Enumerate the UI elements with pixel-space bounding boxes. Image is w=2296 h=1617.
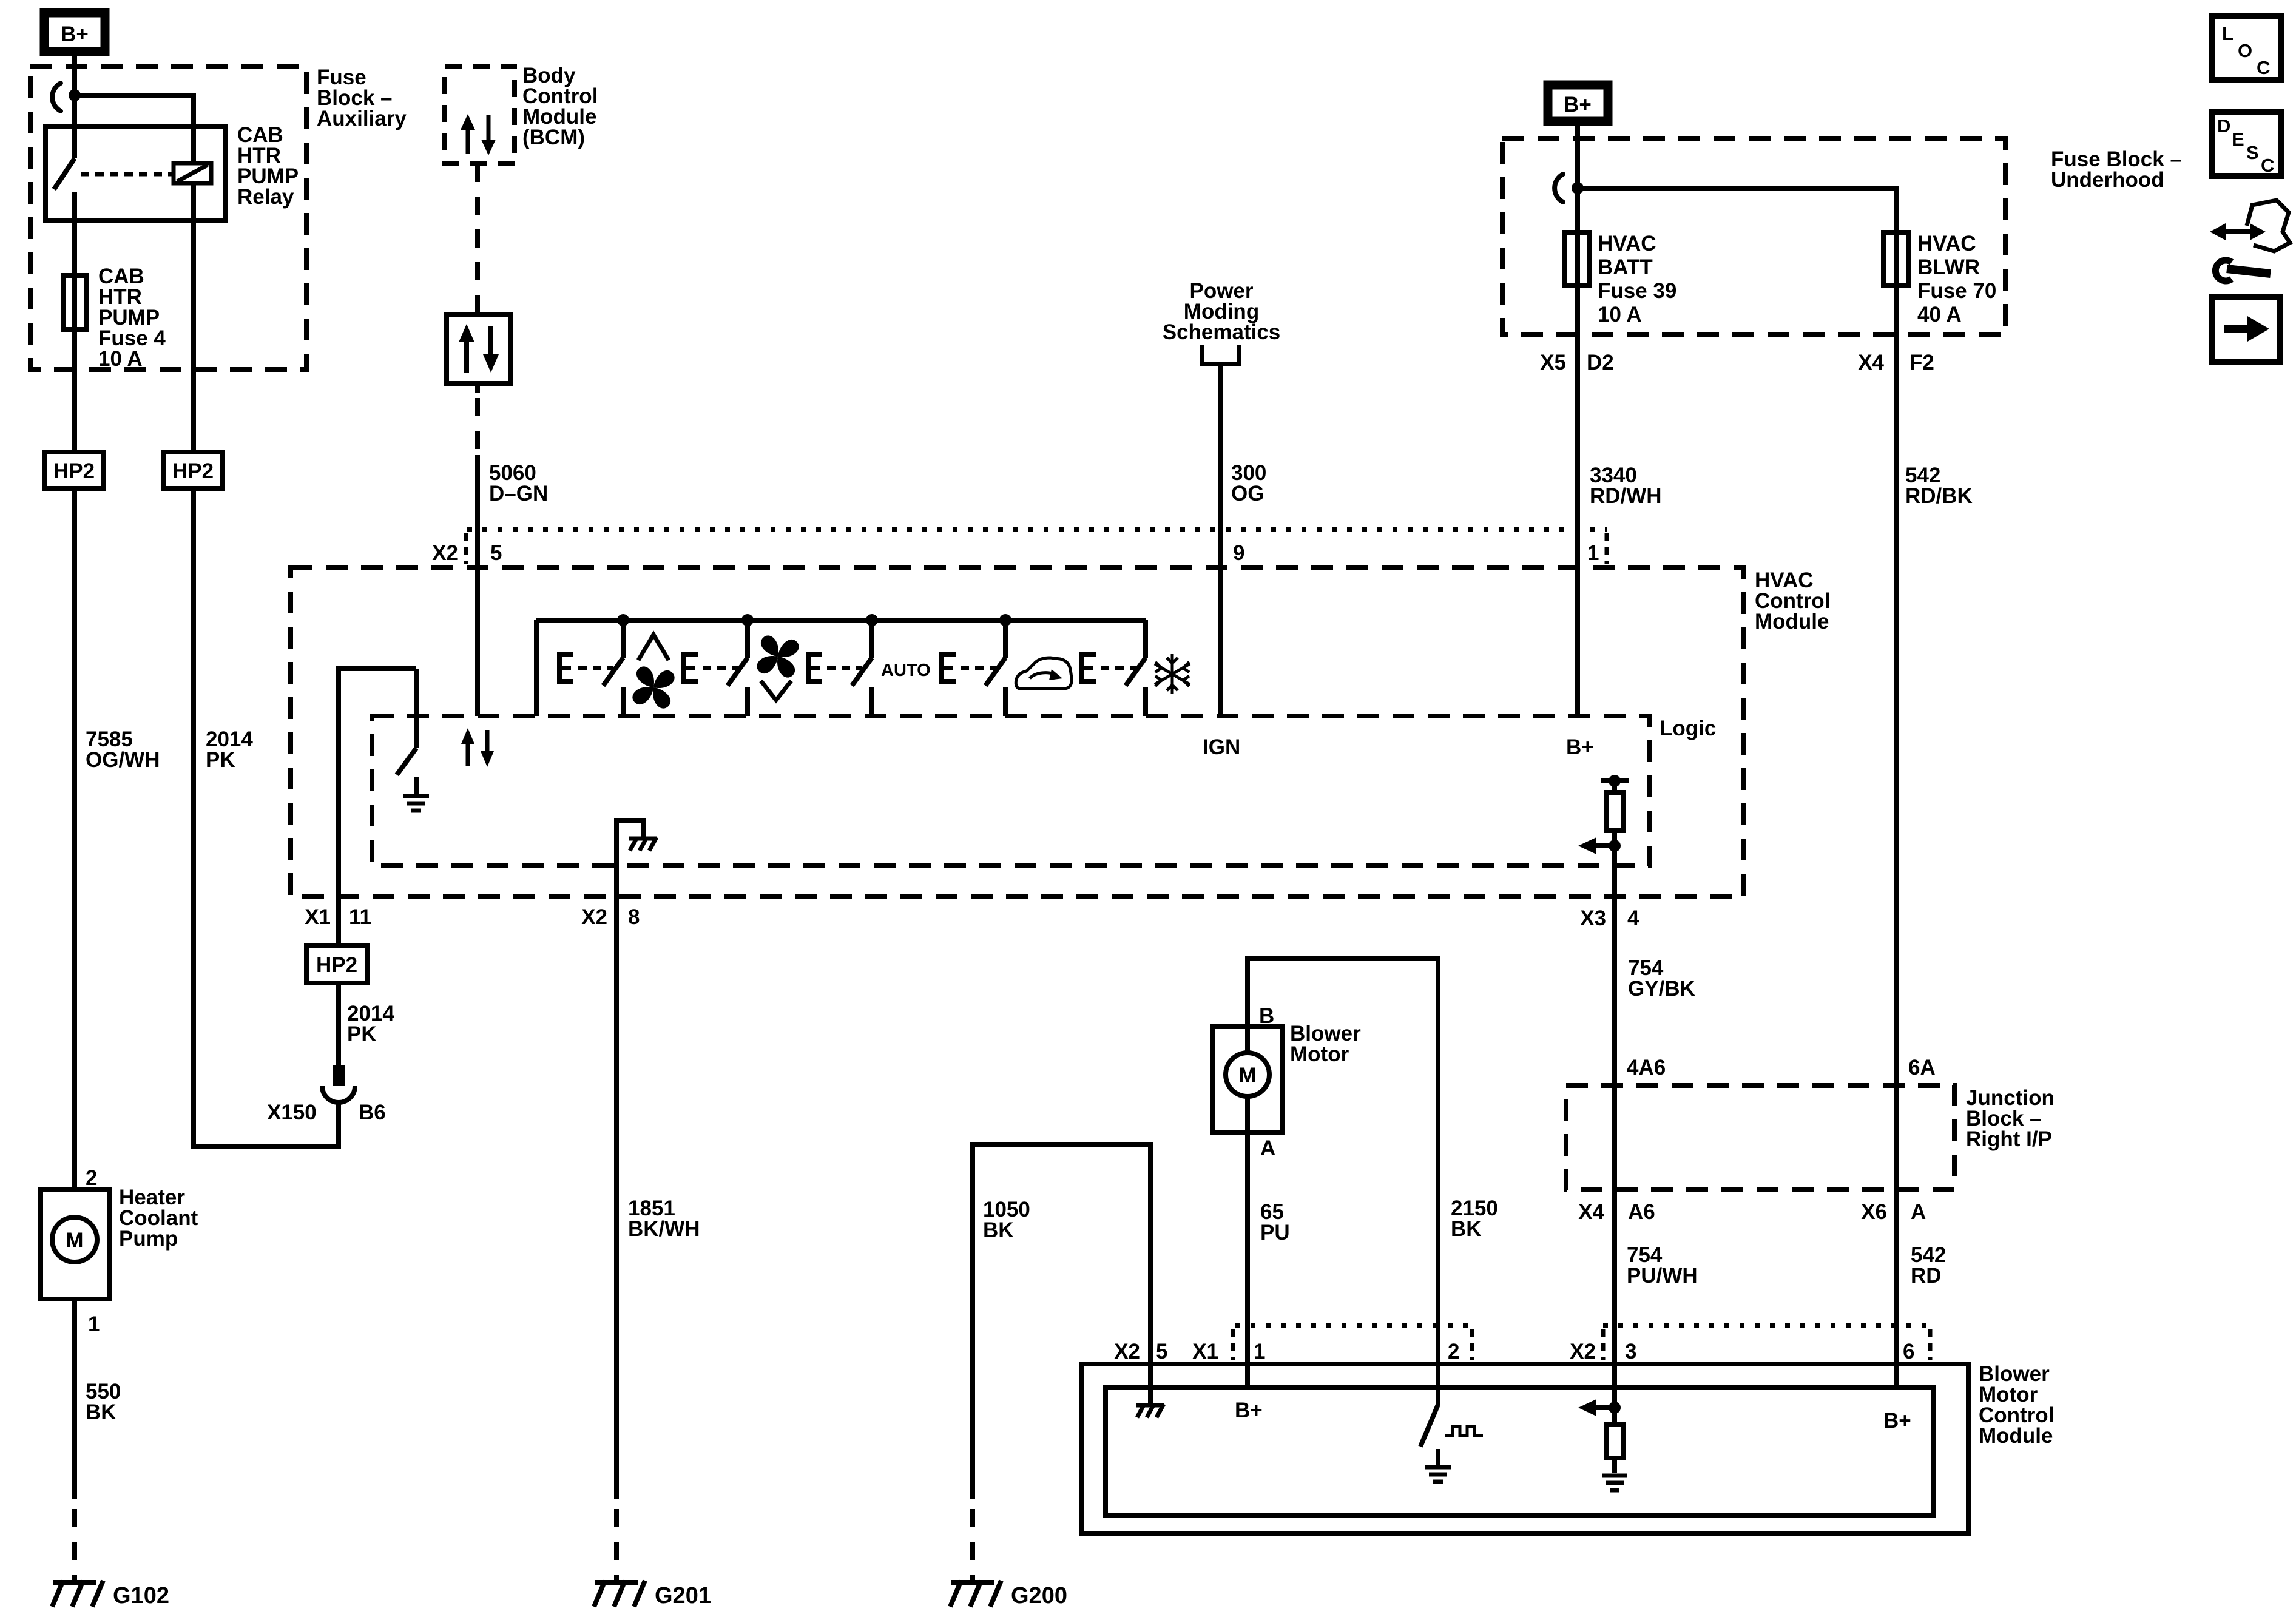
icon A/C snowflake bbox=[1155, 654, 1190, 694]
serial data interface box bbox=[447, 315, 511, 383]
internal ground jog at X2-8 bbox=[616, 820, 643, 837]
wire pin 5 to internal chassis ground bbox=[1148, 1325, 1153, 1404]
svg-text:X2: X2 bbox=[1570, 1340, 1596, 1363]
svg-text:PK: PK bbox=[347, 1022, 377, 1046]
svg-text:OG/WH: OG/WH bbox=[86, 748, 160, 772]
connector HP2 (circuit 2014, fuse block side) bbox=[164, 452, 223, 488]
icon recirculation car bbox=[1016, 658, 1072, 689]
ground G200 chassis ground symbol bbox=[950, 1581, 1001, 1607]
motor M2 Blower Motor bbox=[1213, 1027, 1283, 1133]
svg-text:F2: F2 bbox=[1909, 351, 1934, 374]
wire 1851 BK/WH from X2-8 to G201 bbox=[614, 818, 619, 1499]
svg-text:Underhood: Underhood bbox=[2051, 168, 2164, 192]
svg-text:C: C bbox=[2261, 155, 2274, 176]
wire pin 2 to PWM switch bbox=[1436, 1325, 1440, 1405]
svg-text:B+: B+ bbox=[1883, 1409, 1911, 1433]
pin label X5 D2 bbox=[1540, 351, 1614, 374]
svg-text:HP2: HP2 bbox=[316, 953, 357, 977]
value label 1851 BK/WH bbox=[628, 1197, 700, 1241]
value label 550 BK bbox=[86, 1380, 121, 1424]
relay switch lever bbox=[54, 158, 75, 189]
connector row ticks bbox=[1233, 1329, 1930, 1360]
svg-text:B+: B+ bbox=[61, 22, 89, 46]
svg-text:6A: 6A bbox=[1908, 1056, 1936, 1079]
fuse block feed curl symbol bbox=[52, 83, 61, 111]
dashed wire below interface box bbox=[475, 383, 480, 452]
svg-text:D–GN: D–GN bbox=[489, 482, 548, 505]
svg-text:4A6: 4A6 bbox=[1627, 1056, 1666, 1079]
svg-text:6: 6 bbox=[1903, 1340, 1914, 1363]
svg-text:BLWR: BLWR bbox=[1917, 255, 1980, 279]
svg-text:B+: B+ bbox=[1235, 1399, 1263, 1422]
svg-text:RD: RD bbox=[1911, 1264, 1942, 1288]
connector row end tick bbox=[1605, 533, 1609, 564]
switch bus left leg bbox=[534, 620, 539, 716]
value label 754 PU/WH bbox=[1627, 1243, 1698, 1288]
power symbol B+ (underhood battery feed) bbox=[1548, 85, 1608, 121]
wire 542 RD/BK from fuse 70 down to junction block bbox=[1894, 188, 1899, 1388]
svg-text:X3: X3 bbox=[1580, 906, 1606, 930]
wire through logic resistor to X3-4 bbox=[1612, 781, 1617, 1425]
label Body Control Module (BCM) bbox=[522, 64, 598, 149]
svg-text:B+: B+ bbox=[1564, 93, 1592, 116]
svg-text:40 A: 40 A bbox=[1917, 303, 1962, 326]
svg-text:AUTO: AUTO bbox=[881, 661, 931, 680]
svg-text:BK: BK bbox=[86, 1400, 116, 1424]
switch S3 AUTO (E-controlled) bbox=[806, 614, 878, 716]
svg-text:X2: X2 bbox=[581, 905, 607, 929]
svg-text:Relay: Relay bbox=[237, 185, 294, 209]
value label 2014 PK (module side) bbox=[347, 1002, 394, 1046]
wire feed to relay coil bbox=[75, 95, 194, 163]
pin label X4 F2 bbox=[1858, 351, 1934, 374]
module BCM Body Control Module dashed box bbox=[445, 66, 515, 164]
svg-text:D2: D2 bbox=[1587, 351, 1614, 374]
wire resistor to ground bbox=[1612, 1458, 1617, 1473]
wire 5060 D-GN to HVAC module bbox=[475, 455, 480, 716]
wire relay switch to fuse 4 bbox=[72, 192, 77, 488]
BCM serial data up arrow bbox=[461, 114, 475, 154]
ground G102 chassis ground symbol bbox=[52, 1581, 103, 1607]
svg-text:G201: G201 bbox=[655, 1583, 711, 1609]
fuse HVAC BATT Fuse 39 10 A bbox=[1564, 232, 1590, 285]
pin label X1 1 bbox=[1192, 1340, 1265, 1363]
pin label X3 4 bbox=[1580, 906, 1639, 930]
earth ground symbol (pin 2) bbox=[1425, 1467, 1451, 1482]
PWM signal symbol bbox=[1445, 1426, 1483, 1436]
label Power Moding Schematics bbox=[1163, 279, 1281, 344]
internal switch lever bbox=[397, 748, 416, 775]
svg-text:Pump: Pump bbox=[119, 1227, 178, 1251]
svg-text:X5: X5 bbox=[1540, 351, 1566, 374]
svg-text:10 A: 10 A bbox=[98, 347, 143, 371]
icon LOC navigation box bbox=[2212, 16, 2281, 80]
svg-text:A6: A6 bbox=[1628, 1200, 1655, 1224]
wire 550 BK bbox=[72, 1299, 77, 1499]
value label 542 RD bbox=[1911, 1243, 1946, 1288]
svg-text:B+: B+ bbox=[1566, 735, 1594, 759]
wire 65 PU to module pin 1 bbox=[1245, 1133, 1250, 1388]
relay K CAB HTR PUMP Relay box bbox=[46, 127, 226, 221]
svg-text:9: 9 bbox=[1233, 541, 1244, 565]
value label 542 RD/BK bbox=[1905, 464, 1973, 508]
svg-text:Motor: Motor bbox=[1290, 1042, 1349, 1066]
PWM switch lever bbox=[1420, 1405, 1438, 1447]
wire relay coil to HP2 (circuit 2014) bbox=[191, 183, 196, 452]
chassis ground symbol in module (pin 5) bbox=[1136, 1404, 1164, 1417]
svg-text:X1: X1 bbox=[305, 905, 331, 929]
svg-text:BATT: BATT bbox=[1598, 255, 1653, 279]
svg-text:Auxiliary: Auxiliary bbox=[317, 107, 407, 130]
svg-text:L: L bbox=[2222, 23, 2234, 44]
wire 2014 PK from X150 up to HVAC module X1-11 bbox=[336, 897, 341, 1067]
dashed wire segment to ground G201 bbox=[614, 1509, 619, 1585]
label Blower Motor Control Module bbox=[1979, 1362, 2054, 1448]
underhood feed curl symbol bbox=[1555, 174, 1563, 202]
svg-text:BK: BK bbox=[1451, 1217, 1482, 1241]
label Junction Block - Right I/P bbox=[1966, 1086, 2055, 1151]
value label 5060 D-GN bbox=[489, 461, 548, 505]
svg-text:1: 1 bbox=[1254, 1340, 1265, 1363]
label Blower Motor bbox=[1290, 1022, 1361, 1066]
svg-text:2: 2 bbox=[86, 1166, 97, 1190]
svg-text:PU: PU bbox=[1260, 1221, 1290, 1244]
value label 7585 OG/WH bbox=[86, 727, 160, 772]
fuse CAB HTR PUMP Fuse 4 10 A bbox=[63, 275, 87, 329]
svg-text:5: 5 bbox=[1156, 1340, 1167, 1363]
wire B+ down through HVAC BATT fuse to HVAC module bbox=[1575, 121, 1580, 716]
pin label X2 3 bbox=[1570, 1340, 1636, 1363]
Fuse Block - Underhood dashed box bbox=[1502, 138, 2005, 334]
svg-text:IGN: IGN bbox=[1203, 735, 1240, 759]
svg-text:8: 8 bbox=[628, 905, 640, 929]
svg-text:X1: X1 bbox=[1192, 1340, 1218, 1363]
value label 2150 BK bbox=[1451, 1197, 1498, 1241]
svg-text:1: 1 bbox=[1587, 541, 1599, 565]
svg-text:D: D bbox=[2217, 115, 2230, 137]
connector row X2 of HVAC control module (dotted) bbox=[467, 527, 1607, 532]
motor M1 Heater Coolant Pump bbox=[41, 1190, 109, 1299]
wire 65 PU / 2150 BK loop around blower motor bbox=[1248, 959, 1438, 1325]
dashed serial data wire from BCM bbox=[475, 164, 480, 315]
svg-text:(BCM): (BCM) bbox=[522, 126, 585, 149]
icon fan speed up (chevron and fan) bbox=[621, 635, 686, 720]
pin label X6 A bbox=[1861, 1200, 1926, 1224]
svg-text:X2: X2 bbox=[1114, 1340, 1140, 1363]
svg-text:PK: PK bbox=[206, 748, 235, 772]
svg-text:X4: X4 bbox=[1858, 351, 1884, 374]
connector row X1/X2 of blower motor control module (dotted) bbox=[1235, 1323, 1930, 1328]
module Blower Motor Control Module outer box bbox=[1081, 1364, 1968, 1533]
resistor ladder tap in logic (blower control output) bbox=[1601, 775, 1629, 787]
pin label X2 8 bbox=[581, 905, 640, 929]
junction block Right I/P dashed box bbox=[1566, 1085, 1954, 1190]
label CAB HTR PUMP Relay bbox=[237, 123, 299, 209]
svg-text:Schematics: Schematics bbox=[1163, 320, 1281, 344]
serial data arrows at 5060 input bbox=[461, 728, 494, 767]
icon DESC navigation box bbox=[2212, 112, 2281, 176]
wire 2014 PK down and over to X150 bbox=[194, 488, 339, 1147]
wire B+ to relay switch contact bbox=[72, 52, 77, 158]
PWM switch contact stub bbox=[1436, 1449, 1440, 1465]
wire internal to X1-11 output bbox=[339, 669, 416, 897]
svg-text:Fuse 70: Fuse 70 bbox=[1917, 279, 1996, 303]
switch S5 A/C snowflake (E-controlled) bbox=[1079, 620, 1146, 716]
internal switch contact stub bbox=[414, 777, 419, 794]
svg-text:A: A bbox=[1260, 1136, 1275, 1160]
svg-text:X4: X4 bbox=[1578, 1200, 1604, 1224]
svg-text:C: C bbox=[2257, 57, 2270, 78]
svg-text:A: A bbox=[1911, 1200, 1926, 1224]
logic block dashed box bbox=[372, 716, 1650, 866]
resistor in logic bbox=[1606, 792, 1623, 831]
label Fuse Block - Underhood bbox=[2051, 147, 2182, 192]
connector HP2 (circuit 7585) bbox=[45, 452, 104, 488]
internal switch feed stub bbox=[414, 669, 419, 748]
svg-text:10 A: 10 A bbox=[1598, 303, 1642, 326]
svg-text:G200: G200 bbox=[1011, 1583, 1067, 1609]
svg-text:RD/BK: RD/BK bbox=[1905, 484, 1973, 508]
label HVAC BLWR Fuse 70 40 A bbox=[1917, 232, 1996, 326]
svg-text:S: S bbox=[2246, 142, 2259, 163]
svg-text:11: 11 bbox=[349, 905, 371, 929]
svg-text:E: E bbox=[2232, 129, 2244, 150]
chassis ground symbol in HVAC module bbox=[629, 837, 657, 851]
svg-text:BK/WH: BK/WH bbox=[628, 1217, 700, 1241]
node junction dot underhood feed bbox=[1572, 182, 1584, 194]
connector HP2 (circuit 2014, module side) bbox=[306, 945, 367, 983]
switch S1 fan up (E-controlled) bbox=[557, 614, 629, 716]
svg-text:HVAC: HVAC bbox=[1917, 232, 1976, 255]
interface box up arrow bbox=[459, 324, 474, 373]
pin label X4 A6 bbox=[1578, 1200, 1655, 1224]
module Blower Motor Control Module inner box bbox=[1106, 1388, 1933, 1516]
icon repair double arrow bbox=[2210, 223, 2266, 240]
svg-text:Module: Module bbox=[1979, 1424, 2053, 1448]
wire 1050 BK loop to G200 bbox=[973, 1144, 1150, 1499]
label HVAC Control Module bbox=[1755, 569, 1830, 633]
feedback wiper arrow (pin 3) bbox=[1578, 1399, 1621, 1416]
svg-text:G102: G102 bbox=[113, 1583, 169, 1609]
inline connector X150 B6 male pin bbox=[333, 1065, 345, 1086]
switch bus line in HVAC control head bbox=[536, 618, 1146, 623]
dashed wire segment to ground G200 bbox=[970, 1509, 975, 1585]
wire 300 OG ignition feed bbox=[1218, 364, 1223, 716]
label HVAC BATT Fuse 39 10 A bbox=[1598, 232, 1676, 326]
switch S2 fan down (E-controlled) bbox=[681, 614, 754, 716]
wire feed to HVAC BLWR fuse bbox=[1578, 188, 1896, 238]
svg-text:3: 3 bbox=[1625, 1340, 1636, 1363]
svg-text:Right I/P: Right I/P bbox=[1966, 1127, 2052, 1151]
connector row start tick bbox=[464, 533, 468, 564]
icon fan speed down (fan and chevron) bbox=[746, 624, 810, 700]
svg-text:B6: B6 bbox=[359, 1101, 386, 1124]
svg-text:HVAC: HVAC bbox=[1598, 232, 1656, 255]
Fuse Block - Auxiliary dashed box bbox=[30, 67, 306, 370]
svg-text:PU/WH: PU/WH bbox=[1627, 1264, 1698, 1288]
value label 1050 BK bbox=[983, 1198, 1030, 1242]
icon forward arrow box bbox=[2212, 297, 2280, 362]
switch S4 recirculation (E-controlled) bbox=[939, 614, 1011, 716]
off-page bracket for power moding feed bbox=[1202, 345, 1239, 364]
pin label X1 11 bbox=[305, 905, 371, 929]
svg-text:5: 5 bbox=[490, 541, 502, 565]
label Heater Coolant Pump bbox=[119, 1186, 198, 1251]
resistor in module (pin 3) bbox=[1606, 1425, 1623, 1458]
svg-text:GY/BK: GY/BK bbox=[1628, 977, 1695, 1001]
relay coil link dashed bbox=[81, 172, 172, 177]
value label 300 OG bbox=[1231, 461, 1266, 505]
dashed wire segment to ground G102 bbox=[72, 1509, 77, 1585]
BCM serial data down arrow bbox=[481, 115, 496, 155]
svg-text:2: 2 bbox=[1448, 1340, 1459, 1363]
icon repair wrench bbox=[2215, 260, 2271, 281]
icon repair part outline bbox=[2247, 200, 2290, 251]
svg-text:Fuse 39: Fuse 39 bbox=[1598, 279, 1676, 303]
wiper arrow in logic bbox=[1578, 837, 1621, 854]
relay coil box with diagonal bbox=[174, 163, 211, 183]
svg-text:HP2: HP2 bbox=[53, 459, 95, 483]
svg-text:4: 4 bbox=[1627, 906, 1639, 930]
svg-text:M: M bbox=[66, 1229, 83, 1252]
module HVAC Control Module dashed box bbox=[291, 567, 1744, 897]
svg-text:Module: Module bbox=[1755, 610, 1829, 633]
pin label X2 5 bbox=[1114, 1340, 1167, 1363]
power symbol B+ (left battery feed) bbox=[44, 13, 105, 52]
inline connector X150 B6 female half bbox=[322, 1086, 355, 1102]
wire 7585 OG/WH to heater coolant pump bbox=[72, 488, 77, 1190]
fuse HVAC BLWR Fuse 70 40 A bbox=[1883, 232, 1909, 285]
svg-text:HP2: HP2 bbox=[172, 459, 214, 483]
pin label X2 5 bbox=[432, 541, 502, 565]
value label 2014 PK bbox=[206, 727, 253, 772]
svg-text:X6: X6 bbox=[1861, 1200, 1887, 1224]
label CAB HTR PUMP Fuse 4 10 A bbox=[98, 265, 166, 371]
earth ground symbol in logic bbox=[403, 796, 429, 811]
value label 754 GY/BK bbox=[1628, 956, 1695, 1001]
svg-text:Logic: Logic bbox=[1660, 717, 1716, 740]
value label 65 PU bbox=[1260, 1200, 1290, 1244]
svg-text:X2: X2 bbox=[432, 541, 458, 565]
interface box down arrow bbox=[483, 326, 499, 373]
svg-text:RD/WH: RD/WH bbox=[1590, 484, 1662, 508]
svg-text:1: 1 bbox=[88, 1312, 100, 1336]
svg-text:OG: OG bbox=[1231, 482, 1264, 505]
svg-text:O: O bbox=[2238, 40, 2252, 61]
node junction dot at B+ feed bbox=[69, 89, 81, 101]
svg-text:BK: BK bbox=[983, 1218, 1014, 1242]
label Fuse Block - Auxiliary bbox=[317, 66, 407, 130]
value label 3340 RD/WH bbox=[1590, 464, 1662, 508]
svg-text:X150: X150 bbox=[267, 1101, 317, 1124]
svg-text:M: M bbox=[1238, 1064, 1256, 1087]
earth ground symbol (pin 3) bbox=[1602, 1476, 1627, 1490]
ground G201 chassis ground symbol bbox=[594, 1581, 645, 1607]
